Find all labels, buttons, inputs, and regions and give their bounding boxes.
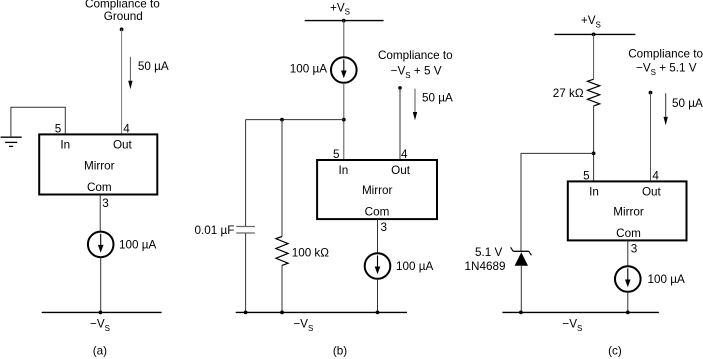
current arrow 50 µA (a) xyxy=(128,57,132,89)
wire: rail to current source (b) xyxy=(343,21,345,58)
svg-text:5.1 V: 5.1 V xyxy=(475,246,502,259)
svg-text:In: In xyxy=(589,185,599,198)
current arrow 50 µA (c) xyxy=(664,93,668,125)
wire: current source to -VS rail (c) xyxy=(627,292,629,313)
current arrow 50 µA (b) xyxy=(413,89,417,121)
svg-text:Mirror: Mirror xyxy=(362,184,393,197)
wire: branch down to resistor (b) xyxy=(281,120,283,237)
wire: Com pin 3 to current source (c) xyxy=(627,240,629,266)
rail +VS (b) xyxy=(305,20,384,22)
wire: resistor to -VS rail (b) xyxy=(281,265,283,312)
rail -VS (a) xyxy=(42,311,162,313)
wire: Com pin 3 to current source (b) xyxy=(377,219,379,253)
mirror box U3 (c) xyxy=(568,181,687,240)
wire: branch down to capacitor (b) xyxy=(245,120,247,226)
wire: Com pin 3 to current source (a) xyxy=(99,195,101,232)
svg-text:100 kΩ: 100 kΩ xyxy=(292,247,330,260)
svg-text:5: 5 xyxy=(583,169,590,182)
node dot on rail zener (c) xyxy=(519,311,523,315)
node dot on rail resistor (b) xyxy=(280,311,284,315)
node dot on rail capacitor (b) xyxy=(244,311,248,315)
resistor R1 100 kΩ (b) xyxy=(276,237,288,266)
capacitor C1 0.01 µF (b) xyxy=(236,227,255,234)
wire: compliance node to Out pin 4 (c) xyxy=(650,93,652,182)
svg-text:Mirror: Mirror xyxy=(613,205,644,218)
wire: compliance node to Out pin 4 (a) xyxy=(121,29,123,134)
node dot on +VS rail (c) xyxy=(592,33,596,37)
svg-text:Com: Com xyxy=(365,206,390,219)
node dot: compliance node (a) xyxy=(120,28,124,32)
mirror box U2 (b) xyxy=(317,160,437,219)
wire: resistor to In pin 5 (c) xyxy=(593,106,595,181)
current source I4 100 µA (c) xyxy=(615,266,641,292)
ground symbol (a) xyxy=(1,137,22,146)
svg-text:(a): (a) xyxy=(93,344,107,357)
svg-text:Out: Out xyxy=(391,164,411,177)
wire: capacitor to -VS rail (b) xyxy=(245,234,247,313)
current source I1 100 µA (a) xyxy=(88,232,114,258)
node dot: compliance node (c) xyxy=(649,91,653,95)
wire: current source to -VS rail (b) xyxy=(377,279,379,313)
wire: ground to In pin 5 (a) xyxy=(11,107,65,137)
rail +VS (c) xyxy=(554,33,635,35)
svg-text:Out: Out xyxy=(113,139,133,152)
svg-text:Out: Out xyxy=(642,185,662,198)
svg-text:50 µA: 50 µA xyxy=(422,92,453,105)
svg-text:Ground: Ground xyxy=(104,10,143,23)
svg-text:Com: Com xyxy=(87,181,112,194)
svg-text:Compliance to: Compliance to xyxy=(628,48,703,61)
current source I2 100 µA (b) xyxy=(331,57,357,83)
rail -VS (c) xyxy=(502,311,659,313)
svg-text:Mirror: Mirror xyxy=(84,159,115,172)
wire: branch to zener (c) xyxy=(521,153,594,251)
wire: current source to -VS rail (a) xyxy=(100,257,102,312)
node label: Compliance to -VS + 5 V xyxy=(378,49,453,80)
wire: branch to capacitor and resistor (b) xyxy=(246,119,344,121)
svg-text:3: 3 xyxy=(102,197,109,210)
current source I3 100 µA (b) xyxy=(365,253,391,279)
resistor R2 27 kΩ (c) xyxy=(588,79,600,106)
svg-text:0.01 µF: 0.01 µF xyxy=(195,224,235,237)
node label: Compliance to Ground xyxy=(85,0,160,23)
junction dot at In branch (b) xyxy=(342,118,346,122)
wire: compliance node to Out pin 4 (b) xyxy=(399,88,401,160)
svg-text:In: In xyxy=(60,139,70,152)
junction dot at In branch (c) xyxy=(592,152,596,156)
svg-text:100 µA: 100 µA xyxy=(290,63,327,76)
node dot on rail source (b) xyxy=(376,311,380,315)
zener diode D1 5.1 V 1N4689 (c) xyxy=(511,247,532,265)
svg-text:(c): (c) xyxy=(608,344,622,357)
svg-text:In: In xyxy=(339,164,349,177)
svg-text:100 µA: 100 µA xyxy=(119,239,156,252)
svg-text:3: 3 xyxy=(631,243,638,256)
wire: rail to resistor (c) xyxy=(593,34,595,79)
svg-text:Com: Com xyxy=(616,227,641,240)
node label: Compliance to -VS + 5.1 V xyxy=(628,48,703,78)
rail -VS (b) xyxy=(236,311,407,313)
svg-text:50 µA: 50 µA xyxy=(138,60,169,73)
node dot on rail (a) xyxy=(99,311,103,315)
svg-text:100 µA: 100 µA xyxy=(396,260,433,273)
svg-text:1N4689: 1N4689 xyxy=(465,260,506,273)
svg-text:100 µA: 100 µA xyxy=(648,273,685,286)
svg-text:27 kΩ: 27 kΩ xyxy=(553,87,584,100)
node dot on rail source (c) xyxy=(626,311,630,315)
wire: current source to In pin 5 (b) xyxy=(343,83,345,160)
svg-text:4: 4 xyxy=(652,169,659,182)
svg-text:50 µA: 50 µA xyxy=(672,97,703,110)
wire: zener to -VS rail (c) xyxy=(520,266,522,313)
node dot: compliance node (b) xyxy=(398,86,402,90)
svg-text:3: 3 xyxy=(381,221,388,234)
mirror box U1 (a) xyxy=(39,134,157,194)
junction dot at resistor branch (b) xyxy=(280,118,284,122)
node dot on +VS rail (b) xyxy=(342,19,346,23)
svg-text:Compliance to: Compliance to xyxy=(378,49,453,62)
svg-text:(b): (b) xyxy=(333,344,347,357)
